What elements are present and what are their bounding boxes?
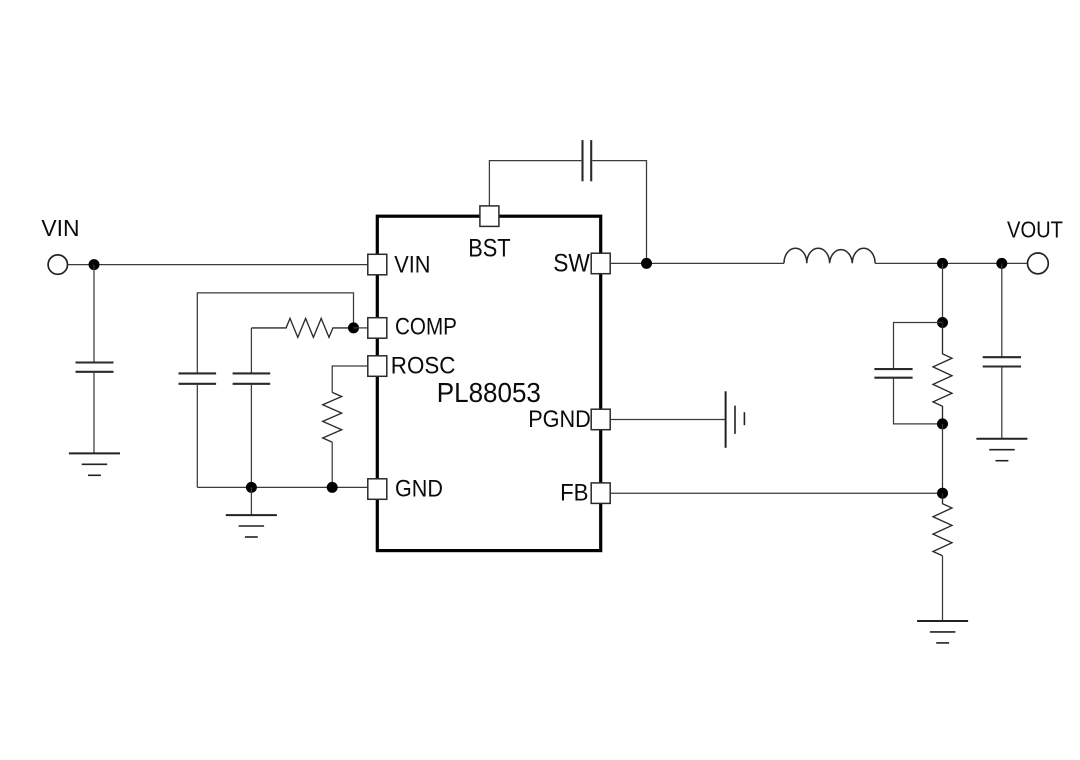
resistor (ROSC) (323, 392, 342, 442)
svg-text:VIN: VIN (41, 215, 79, 241)
pin PGND (591, 409, 610, 430)
svg-text:COMP: COMP (395, 314, 457, 341)
wire VOUT cap top stem (1001, 263, 1003, 357)
svg-text:BST: BST (468, 234, 510, 262)
svg-text:PL88053: PL88053 (437, 377, 541, 408)
pin BST (480, 206, 499, 227)
ground (feedback divider) (917, 621, 968, 643)
wire ROSC pin lead (332, 366, 368, 392)
terminal VOUT (1028, 253, 1049, 274)
pin VIN (368, 254, 387, 274)
wire divider mid to FB node (942, 424, 944, 493)
wire BST pin up and over to bootstrap cap (489, 161, 581, 206)
svg-text:FB: FB (560, 480, 588, 507)
wire ground rail to GND pin (197, 486, 367, 488)
pin SW (591, 253, 610, 274)
wire C3 top stem (250, 328, 252, 374)
wire C2 bottom to rail (196, 384, 198, 488)
pin ROSC (368, 356, 387, 377)
resistor R2 (lower feedback) (933, 493, 952, 556)
svg-text:VIN: VIN (394, 252, 430, 279)
wire VOUT cap to ground (1001, 367, 1003, 439)
wire R2 to ground (942, 556, 944, 621)
IC U1 PL88053 body (377, 216, 600, 550)
node input junction (89, 259, 100, 270)
wire inductor to VOUT terminal (875, 262, 1027, 264)
node rail-ROSC junction (327, 482, 338, 493)
node VOUT-cap junction (996, 258, 1007, 269)
resistor (COMP series) (251, 318, 353, 337)
wire feedforward branch bottom (894, 378, 943, 424)
svg-text:SW: SW (553, 250, 590, 278)
capacitor C4 (bootstrap) (583, 140, 592, 181)
wire FB pin to divider (610, 492, 942, 494)
wire VIN terminal to VIN pin (68, 264, 368, 266)
wire PGND pin to power ground (610, 419, 725, 421)
node FB junction (937, 488, 948, 499)
inductor L1 (784, 248, 875, 263)
pin GND (368, 479, 387, 500)
ground (output cap) (976, 439, 1027, 461)
wire bootstrap cap to SW node (592, 161, 646, 264)
wire VOUT node down to divider (942, 263, 944, 322)
capacitor C6 (output) (983, 357, 1021, 366)
wire input node down to C1 (93, 265, 95, 363)
svg-text:GND: GND (395, 475, 443, 502)
resistor R1 (upper feedback) (933, 323, 952, 424)
pin FB (591, 483, 610, 504)
wire COMP top loop (C2 top stem, over, down to COMP node) (197, 293, 353, 374)
node VOUT-FB junction (937, 258, 948, 269)
node divider top junction (937, 317, 948, 328)
wire SW pin to inductor (610, 262, 784, 264)
ground (input cap) (69, 453, 120, 475)
svg-text:VOUT: VOUT (1007, 217, 1063, 243)
wire C1 to ground (93, 372, 95, 454)
capacitor C2 (179, 373, 217, 383)
terminal VIN (48, 255, 67, 274)
ground (power, rotated) (726, 391, 745, 448)
wire ROSC resistor to rail (331, 442, 333, 487)
wire feedforward branch top (894, 323, 943, 370)
node COMP junction (348, 322, 359, 333)
ground (analog GND) (226, 515, 277, 537)
capacitor C3 (233, 373, 271, 383)
svg-text:ROSC: ROSC (391, 353, 456, 380)
pin COMP (368, 318, 387, 339)
wire rail to ground stem (250, 487, 252, 515)
wire COMP node to COMP pin (354, 327, 368, 329)
wire C3 bottom to rail (250, 384, 252, 488)
node divider mid junction (937, 418, 948, 429)
capacitor C1 (input) (76, 363, 114, 372)
svg-text:PGND: PGND (528, 406, 591, 433)
node rail-C3 junction (246, 482, 257, 493)
node SW junction (641, 258, 652, 269)
capacitor C5 (feedforward) (874, 369, 912, 378)
